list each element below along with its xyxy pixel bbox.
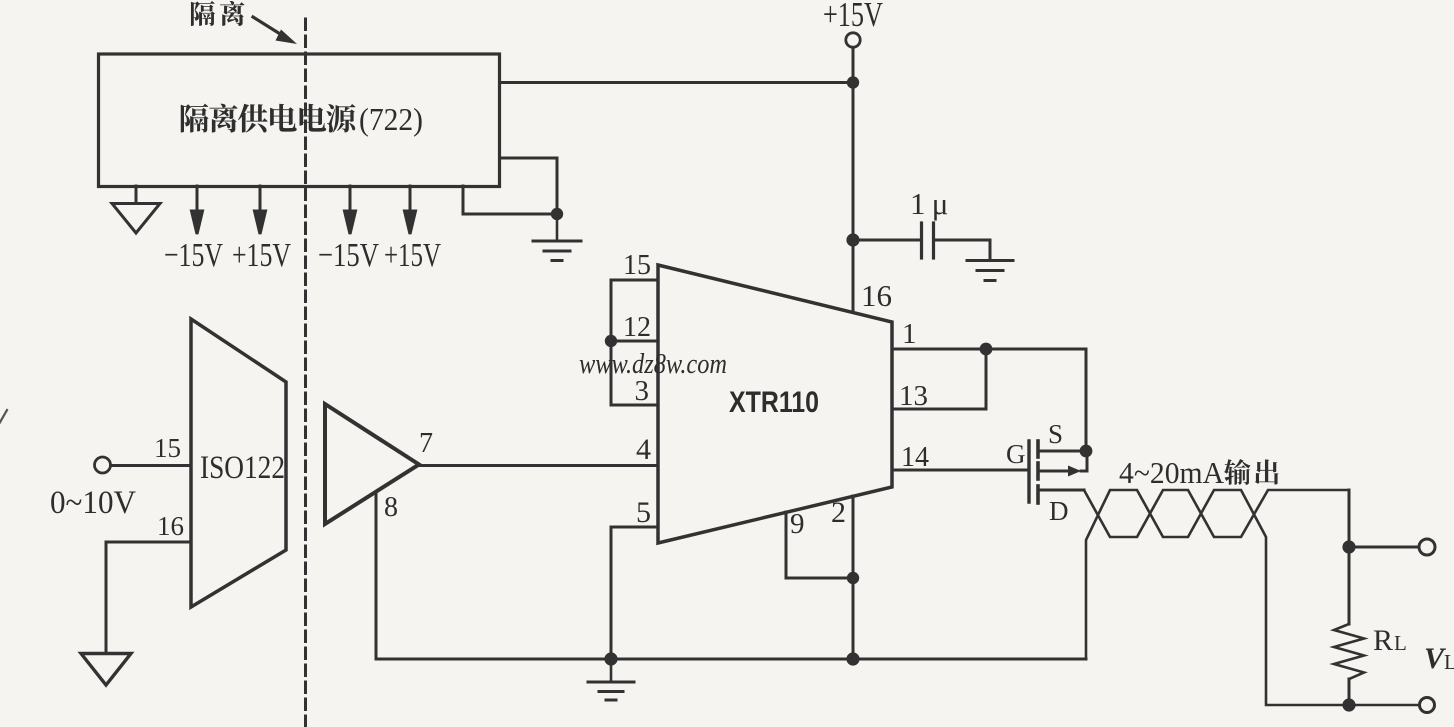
wire ISO pin 16 to ground (106, 542, 191, 652)
node junction aux ground (551, 208, 563, 220)
svg-text:12: 12 (623, 312, 651, 343)
wire pin 12 stub (611, 340, 658, 343)
svg-text:+15V: +15V (823, 0, 883, 34)
resistor RL (1334, 624, 1364, 679)
wire junction to resistor (1348, 547, 1351, 624)
svg-text:0~10V: 0~10V (50, 485, 136, 521)
svg-text:−15V: −15V (318, 237, 379, 274)
wire pin 15 stub (611, 279, 658, 282)
label 隔离 (191, 1, 245, 26)
svg-text:L: L (1394, 631, 1407, 655)
svg-text:(722): (722) (359, 101, 423, 137)
twisted pair wire B (common to load bottom) (1086, 490, 1420, 705)
svg-text:−15V: −15V (164, 237, 223, 274)
+15V output arrow 4 (405, 186, 416, 234)
ground (earth) main (588, 659, 634, 700)
svg-text:XTR110: XTR110 (729, 386, 819, 419)
wire pin 4 input from buffer (419, 464, 658, 467)
svg-text:www.dz8w.com: www.dz8w.com (579, 349, 727, 380)
node junction pin 9/2 (847, 572, 859, 584)
wire pin 5 stub (611, 526, 658, 529)
wire pin 13 stub (892, 349, 986, 409)
svg-text:L: L (1444, 650, 1454, 674)
svg-text:1 μ: 1 μ (910, 186, 948, 221)
wire supply box to +15V rail (500, 81, 853, 84)
node junction pin2/common (846, 652, 859, 665)
node junction on +15V rail (847, 76, 859, 88)
wire common bottom rail (376, 658, 1086, 661)
wire input to pin 15 (111, 464, 192, 467)
power supply box U3 隔离供电电源(722) (99, 54, 500, 187)
output terminal bottom (1420, 698, 1435, 713)
node junction pin 12 (605, 335, 617, 347)
ground (chassis) for input (81, 654, 131, 686)
isolation label arrow (253, 17, 297, 44)
+15V output arrow 2 (255, 186, 266, 234)
wire pin 5 down to common (610, 527, 613, 659)
svg-text:ISO122: ISO122 (200, 450, 285, 486)
svg-text:S: S (1048, 419, 1063, 449)
wire +15V rail vertical down to pin 16 (852, 48, 855, 313)
svg-text:8: 8 (384, 492, 398, 523)
node junction load bottom (1342, 698, 1355, 711)
scan artifact left edge (0, 410, 7, 424)
wire pin 9 stub down (786, 512, 853, 578)
svg-text:14: 14 (901, 442, 929, 473)
op-amp U2 ISO122 body (191, 319, 286, 607)
wire resistor to bottom rail (1348, 679, 1351, 705)
wire pin 14 to gate (892, 469, 1029, 472)
twisted pair wire A (drain to load top) (1084, 490, 1349, 537)
svg-text:9: 9 (790, 508, 805, 540)
svg-text:D: D (1049, 496, 1069, 526)
-15V output arrow 1 (192, 186, 203, 234)
svg-text:5: 5 (636, 496, 651, 529)
label 隔离供电电源(722) (181, 101, 423, 137)
label 4~20mA output (1119, 455, 1278, 490)
wire pin 3 stub (611, 404, 658, 407)
ground (chassis) under supply box (112, 186, 160, 233)
svg-text:16: 16 (861, 278, 892, 313)
wire pin 2 down to common (852, 496, 855, 659)
node junction at source (1080, 445, 1093, 458)
ground (earth) near supply box (533, 214, 581, 261)
svg-text:+15V: +15V (232, 237, 291, 274)
svg-text:2: 2 (831, 496, 846, 529)
node junction at capacitor tap (846, 233, 859, 246)
svg-text:13: 13 (899, 380, 928, 412)
wire supply box aux output to ground (463, 158, 557, 214)
wire pin 8 feedback down (375, 494, 378, 659)
wire to top output terminal (1349, 546, 1419, 549)
wire load top drop (1348, 490, 1351, 547)
svg-text:4: 4 (636, 433, 651, 466)
svg-text:G: G (1006, 439, 1026, 469)
wire pin 1 output (892, 348, 1086, 351)
op-amp U1 XTR110 body (658, 265, 892, 543)
+15V terminal (846, 33, 860, 47)
wire pin1 net down to source (1085, 349, 1088, 451)
output terminal top (1419, 539, 1435, 555)
svg-text:15: 15 (623, 250, 651, 281)
isolation barrier dashed line (304, 19, 307, 727)
wire pins 15-12-3 vertical tie (610, 280, 613, 405)
svg-text:15: 15 (154, 433, 181, 463)
transistor Q1 MOSFET (1029, 441, 1087, 503)
-15V output arrow 3 (345, 186, 356, 234)
capacitor C1 1u (853, 223, 990, 259)
svg-text:+15V: +15V (384, 237, 441, 274)
svg-text:R: R (1373, 624, 1393, 657)
svg-text:16: 16 (157, 511, 184, 541)
node junction common/ground (604, 652, 617, 665)
input terminal 0-10V (95, 457, 111, 473)
svg-text:7: 7 (419, 428, 433, 459)
op-amp U4 buffer triangle (325, 404, 419, 524)
svg-text:1: 1 (902, 318, 917, 350)
ground (earth) for capacitor (967, 261, 1013, 281)
node junction pin1/13 (980, 343, 993, 356)
node junction load top (1342, 540, 1355, 553)
svg-text:4~20mA: 4~20mA (1119, 455, 1225, 490)
